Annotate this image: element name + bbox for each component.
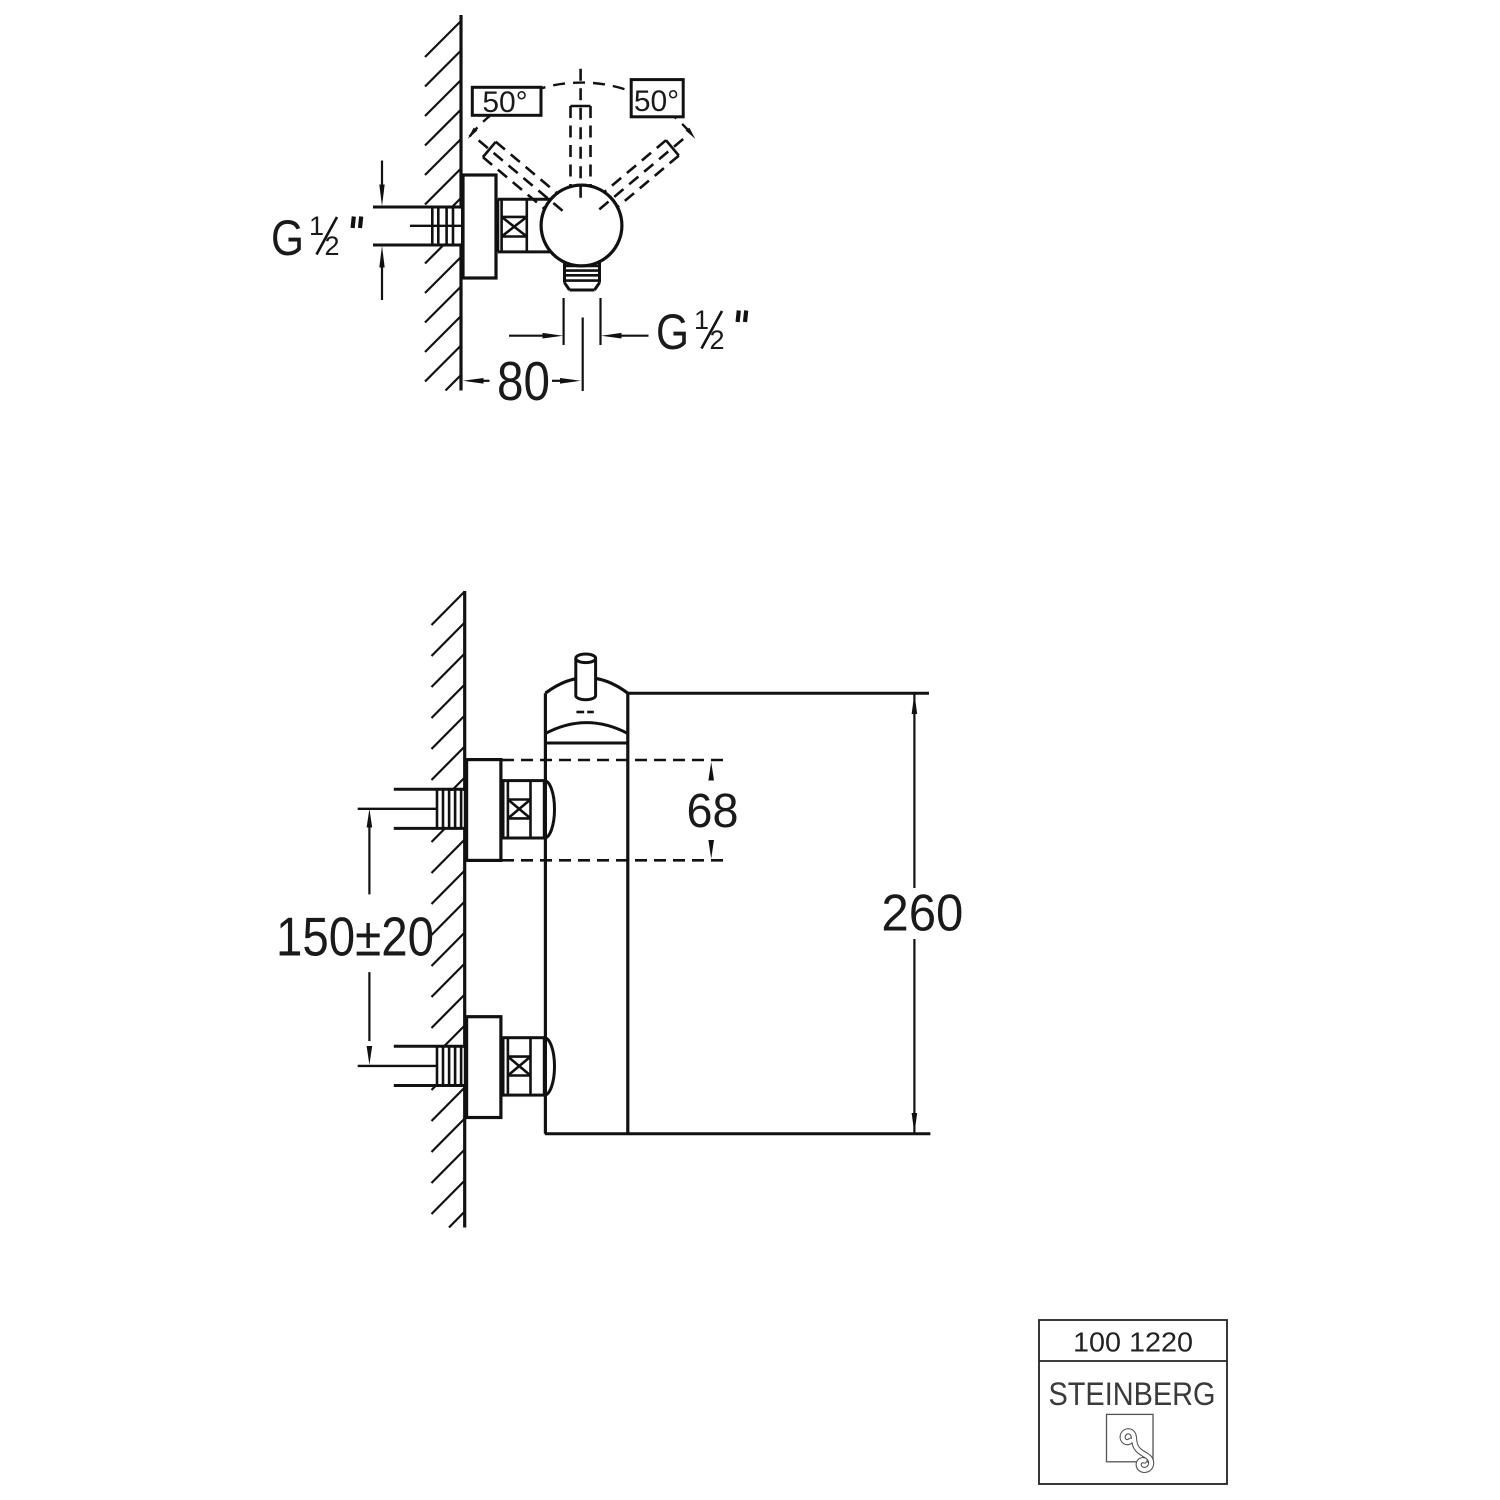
connector with X symbol (side view)	[503, 781, 544, 838]
handle straight position (dashed)	[571, 69, 591, 204]
wall hatching (side view)	[432, 592, 465, 1228]
threaded outlet below ball	[563, 262, 566, 283]
logo square	[1107, 1414, 1154, 1461]
svg-text:1: 1	[694, 305, 709, 335]
handle tilted right 50 deg (dashed)	[591, 131, 690, 218]
wall hatching (top view)	[425, 21, 461, 391]
connector with X symbol (top view)	[498, 198, 553, 201]
pipe centerline / dim tick	[358, 808, 437, 810]
valve dome cap arc	[544, 1038, 554, 1095]
cartridge collar arc	[545, 723, 627, 734]
outlet centerline	[582, 318, 584, 392]
dashed extension line upper (68)	[502, 759, 729, 762]
dimension 80	[463, 378, 484, 384]
handle tilted left 50 deg (dashed)	[472, 133, 571, 220]
supply pipe (side view)	[394, 1045, 465, 1048]
svg-text:50°: 50°	[634, 85, 679, 118]
svg-text:80: 80	[497, 350, 550, 412]
wall (top view)	[459, 15, 462, 391]
G1/2 dimension line (left)	[381, 161, 383, 189]
logo outer box	[1039, 1320, 1227, 1484]
svg-text:G: G	[656, 304, 689, 360]
valve dome cap arc	[544, 781, 554, 838]
svg-text:G: G	[271, 210, 304, 266]
dimension 68	[708, 762, 714, 781]
swivel arc 50-50 (dashed)	[470, 83, 694, 137]
svg-text:2: 2	[325, 231, 340, 261]
50deg box right	[631, 80, 683, 117]
collar joint line	[545, 742, 627, 745]
wall flange (side view)	[467, 1017, 501, 1118]
wall flange (side view)	[467, 760, 501, 861]
svg-text:STEINBERG: STEINBERG	[1049, 1376, 1216, 1412]
bottom reference edge	[545, 1132, 931, 1135]
logo divider line	[1039, 1360, 1227, 1362]
top reference edge	[628, 692, 929, 695]
svg-text:100 1220: 100 1220	[1073, 1327, 1193, 1358]
G1/2 dimension (bottom)	[509, 335, 545, 337]
pipe centerline / dim tick	[358, 1065, 437, 1067]
outlet dimension ticks	[562, 298, 564, 345]
pipe centerline	[410, 225, 461, 227]
supply pipe interior mask	[373, 209, 461, 244]
svg-text:68: 68	[687, 785, 739, 838]
supply pipe (side view)	[394, 788, 465, 791]
body dome	[545, 678, 627, 694]
wall (side view)	[463, 591, 466, 1228]
mixer body left edge	[544, 693, 547, 1134]
pipe interior masks (side view)	[394, 791, 464, 827]
wall flange (top view)	[463, 175, 496, 278]
pipe thread lines	[436, 1046, 439, 1085]
50deg box left	[472, 87, 541, 115]
ball body (top view)	[541, 185, 622, 266]
pipe thread lines	[431, 207, 434, 245]
svg-text:2: 2	[710, 325, 725, 355]
dimension 260	[913, 693, 915, 888]
dimension 150±20	[367, 809, 373, 828]
connector with X symbol (side view)	[503, 1038, 544, 1095]
dashed extension line lower (68)	[502, 859, 729, 862]
supply pipe G1/2 (top view)	[373, 206, 463, 209]
svg-text:260: 260	[881, 885, 963, 943]
svg-text:150±20: 150±20	[276, 906, 434, 968]
knob marking dashes	[576, 711, 584, 714]
logo swirl	[1123, 1431, 1152, 1470]
mixer body right edge	[626, 693, 629, 1134]
pipe thread lines	[436, 789, 439, 828]
svg-text:1: 1	[309, 211, 324, 241]
svg-text:50°: 50°	[482, 86, 527, 119]
temperature pin	[576, 658, 596, 696]
